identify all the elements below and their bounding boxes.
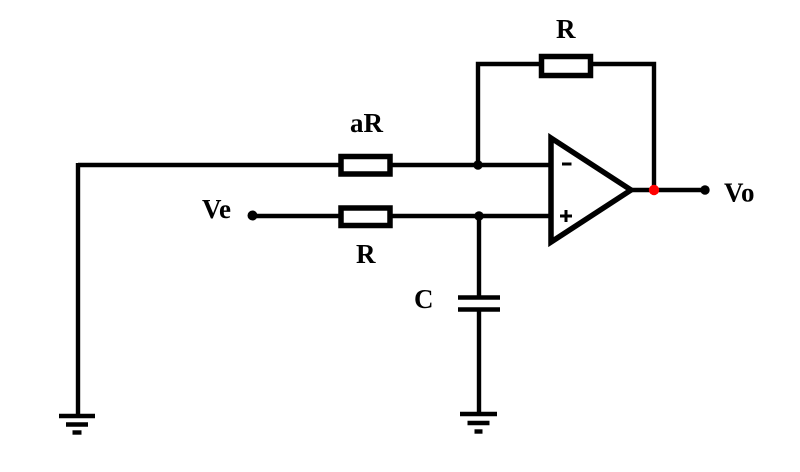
svg-text:R: R xyxy=(556,14,576,44)
svg-text:Vo: Vo xyxy=(724,178,755,208)
svg-text:aR: aR xyxy=(350,108,384,138)
svg-text:C: C xyxy=(414,284,434,314)
svg-text:Ve: Ve xyxy=(202,194,231,224)
svg-text:R: R xyxy=(356,239,376,269)
